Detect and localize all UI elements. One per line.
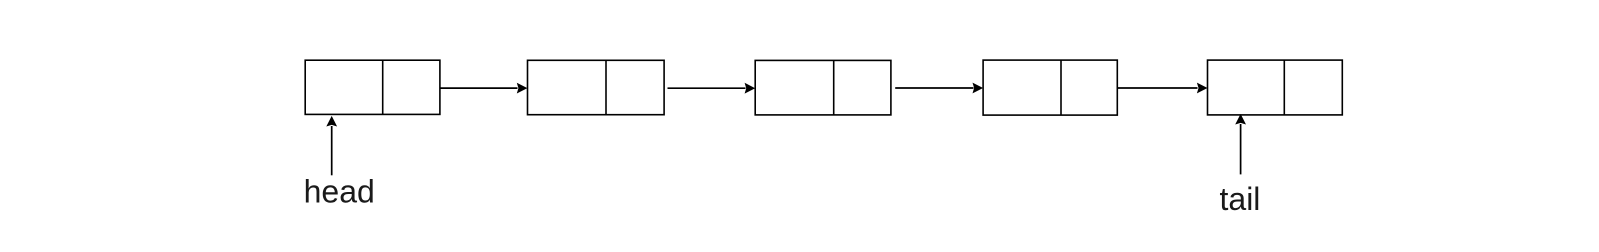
- node 3 box: [755, 60, 891, 115]
- wire arrow node1 to node2: [440, 87, 517, 89]
- arrowhead node4: [973, 83, 984, 94]
- node 3 divider: [833, 60, 835, 115]
- node 2 box: [528, 60, 665, 114]
- head arrowhead: [326, 116, 337, 127]
- node 4 divider: [1060, 60, 1062, 115]
- node 5 box: [1208, 60, 1343, 115]
- tail arrowhead: [1235, 114, 1246, 125]
- head pointer line: [331, 126, 333, 175]
- wire arrow node2 to node3: [668, 87, 746, 89]
- wire arrow node4 to node5: [1118, 87, 1198, 89]
- node 1 divider: [382, 60, 384, 114]
- wire arrow node3 to node4: [895, 87, 973, 89]
- svg-text:head: head: [304, 174, 375, 210]
- node 5 divider: [1283, 60, 1285, 115]
- node 1 box: [305, 60, 440, 114]
- node 2 divider: [605, 60, 607, 114]
- tail pointer line: [1240, 124, 1242, 174]
- arrowhead node5: [1197, 83, 1208, 94]
- arrowhead node3: [745, 83, 756, 94]
- arrowhead node2: [517, 83, 528, 94]
- svg-text:tail: tail: [1220, 181, 1261, 217]
- node 4 box: [983, 60, 1117, 115]
